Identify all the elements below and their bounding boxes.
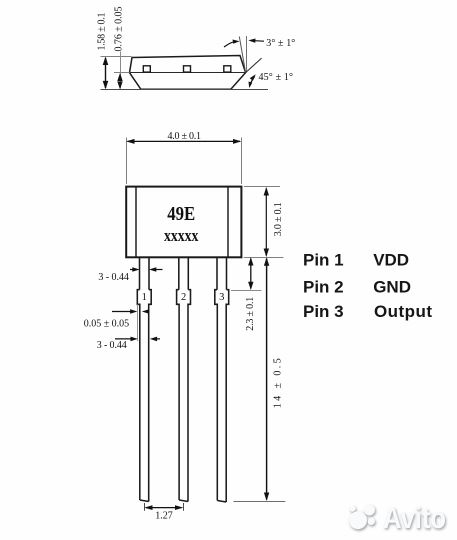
svg-text:Pin 2: Pin 2	[303, 278, 344, 297]
svg-text:Avito: Avito	[383, 502, 446, 535]
svg-text:4.0 ± 0.1: 4.0 ± 0.1	[167, 131, 201, 142]
svg-text:3: 3	[219, 292, 224, 303]
svg-text:VDD: VDD	[373, 251, 409, 270]
svg-text:49E: 49E	[167, 204, 195, 225]
svg-text:Pin 1: Pin 1	[303, 251, 344, 270]
svg-text:3.0 ± 0.1: 3.0 ± 0.1	[273, 202, 284, 236]
svg-text:GND: GND	[373, 278, 411, 297]
svg-text:1.27: 1.27	[155, 510, 173, 521]
svg-text:3° ± 1°: 3° ± 1°	[266, 38, 295, 49]
svg-text:xxxxx: xxxxx	[164, 226, 199, 245]
svg-text:Pin 3: Pin 3	[303, 302, 344, 321]
svg-text:0.05 ± 0.05: 0.05 ± 0.05	[84, 319, 130, 330]
svg-text:14 ± 0.5: 14 ± 0.5	[272, 358, 283, 408]
svg-text:Output: Output	[374, 302, 432, 321]
svg-text:45° ± 1°: 45° ± 1°	[259, 72, 294, 83]
svg-text:2: 2	[181, 292, 186, 303]
svg-text:1.58 ± 0.1: 1.58 ± 0.1	[97, 13, 108, 51]
svg-text:2.3 ± 0.1: 2.3 ± 0.1	[245, 297, 256, 331]
svg-text:3 - 0.44: 3 - 0.44	[98, 272, 128, 283]
svg-text:3 - 0.44: 3 - 0.44	[97, 340, 127, 351]
svg-text:0.76 ± 0.05: 0.76 ± 0.05	[114, 7, 125, 52]
svg-text:1: 1	[142, 292, 147, 303]
